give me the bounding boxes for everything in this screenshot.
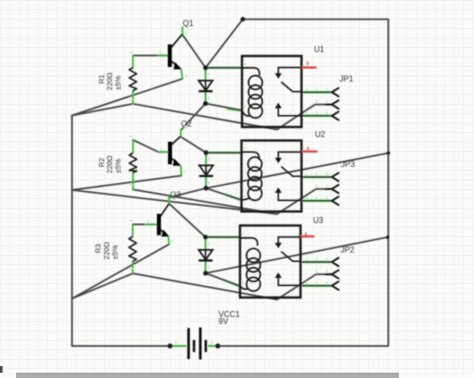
transistor Q3 [157,204,169,237]
wire green B2 to coil [226,195,240,200]
svg-text:Q2: Q2 [181,119,192,128]
wire right rail to node B2 [206,153,389,188]
wire R2 top to Q2 base [133,140,169,152]
wire node A2 to relay U2 coil [206,152,242,154]
jumper JP1 [302,88,339,120]
wire green Q3 base [145,223,156,225]
wire R1 bottom to V1 [133,104,277,130]
transistor Q1 [168,34,183,69]
wire J2 to V2 [72,190,277,214]
wire R3 top to Q3 base [133,223,157,225]
svg-text:±5%: ±5% [114,75,123,90]
wire node B1 to U1 coil bottom [206,104,243,111]
pin U2 vcc red stub [302,147,318,152]
jumper JP3 [302,172,339,205]
node right rail JP3 [387,151,390,154]
svg-text:±5%: ±5% [110,245,119,260]
wire node A1 to relay U1 coil [206,67,243,69]
pin U1 vcc red stub [302,62,317,68]
wire green B1 to coil [228,109,241,110]
wire green battery left [172,345,187,347]
svg-text:JP1: JP1 [340,75,354,84]
wire V1 to JP1 pin2 [277,105,332,130]
node A3 [203,235,208,240]
wire node B2 to Q3 collector [169,188,206,197]
node top rail corner [241,17,246,22]
wire green Q3 emitter [167,237,170,244]
wire node A3 to relay U3 coil [205,236,240,238]
wire green battery right [208,345,217,347]
wire green D2 leads [205,155,207,186]
GREEN-WIRES [133,27,183,273]
wire green A3 to coil [209,236,239,238]
wire green R2 top lead [132,140,134,152]
svg-text:JP2: JP2 [341,246,355,255]
wire top rail and right rail [219,19,388,346]
wire green R1 top lead [132,56,134,68]
wire green Q2 emitter [180,166,183,176]
node B3 [203,271,208,276]
relay U3 [240,226,301,298]
wire J2 to Q2 emitter node [72,176,182,190]
wire green Q1 collector [181,27,183,37]
diode D2 [199,153,213,189]
svg-text:Q3: Q3 [170,191,181,200]
wire bottom left and left rail [72,116,169,347]
pin ticks [130,32,245,345]
wire node A1 to top rail corner [206,19,243,68]
wire green R2 bottom lead [132,173,134,190]
resistor R2 [129,153,136,173]
svg-text:U1: U1 [314,45,325,54]
wire Q3 collector to node A3 [169,204,205,238]
wire node B2 to U2 coil bottom [206,188,242,200]
svg-text:JP3: JP3 [341,160,355,169]
diode D3 [199,237,213,273]
wire green Q1 base [158,55,168,57]
wire green R1 bottom lead [132,91,134,104]
transistor Q2 [168,137,181,166]
diode D1 [199,68,213,104]
node A1 [203,65,208,70]
wire V3 to JP2 pin2 [277,274,332,299]
wire R3 bottom to V3 [133,273,277,299]
resistor R3 [129,236,136,261]
wire Q1 collector to node A1 [182,35,205,68]
resistor R1 [129,68,136,91]
node B1 [203,101,208,106]
wire node B1 to Q2 collector [181,104,206,131]
label R3 value [94,241,120,259]
wire Q2 collector to node A2 [180,137,206,153]
wire R2 bottom to V2 [133,190,277,215]
wire J3 to R3 bottom [72,273,133,298]
svg-text:U3: U3 [313,216,324,225]
svg-text:U2: U2 [315,130,326,139]
wire green D3 leads [205,240,207,271]
wire green Q3 collector [168,197,170,204]
node battery left [168,344,173,349]
corner mark [0,366,3,373]
wire J3 to Q3 emitter node [72,244,169,298]
scrollbar track [16,373,399,378]
node right rail JP2 [386,236,389,239]
wire green Q1 emitter [181,70,182,79]
wire green R3 bottom lead [132,262,134,274]
wire right rail to node B3 [206,237,388,273]
wire green A1 to coil [209,67,241,69]
node A2 [204,150,209,155]
pin U3 vcc red stub [301,232,315,236]
svg-text:±5%: ±5% [114,158,123,173]
label R2 value [97,155,123,173]
wire J1 to Q1 emitter node [72,79,182,116]
relay U1 [242,56,302,127]
jumper JP2 [302,257,339,290]
svg-text:Q1: Q1 [183,19,194,28]
wire node B3 to U3 coil bottom [206,273,240,286]
SCROLLBAR [0,366,399,378]
battery VCC1 [189,328,206,360]
label R1 value [97,72,123,90]
wire green B3 to coil [225,280,239,286]
wire green Q2 base [158,151,168,153]
GREEN-UNDER [209,68,241,286]
node battery right [215,344,220,349]
wire green R3 top lead [132,225,134,237]
wire green Q2 collector [180,130,182,136]
node B2 [204,186,209,191]
relay U2 [242,141,302,212]
wire green D1 leads [205,71,207,102]
wire V2 to JP3 pin2 [277,189,332,214]
wire J1 to R1 bottom [72,104,133,116]
wire R1 top to Q1 base [133,55,169,57]
svg-text:9V: 9V [219,317,229,326]
wire green A2 to coil [209,151,240,153]
